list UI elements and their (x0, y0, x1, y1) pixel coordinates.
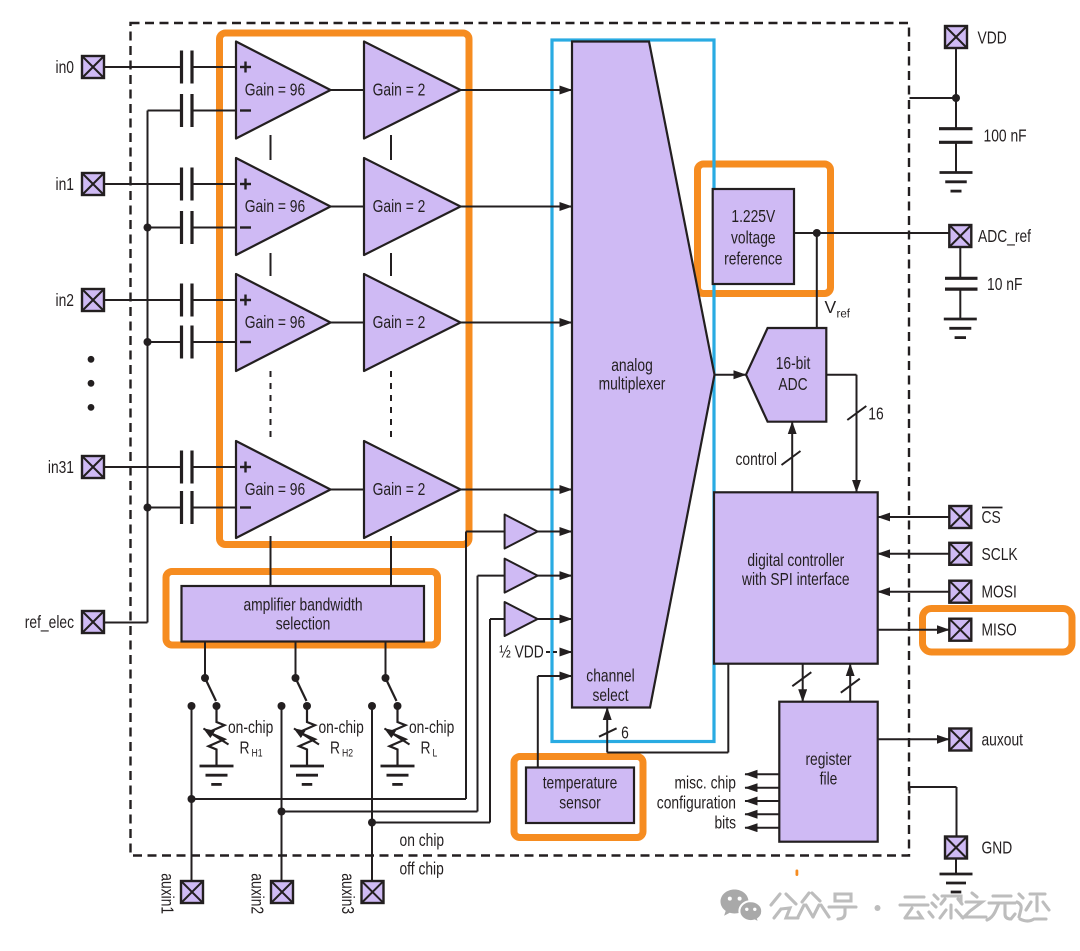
bus slash (841, 679, 860, 693)
minus mark (240, 506, 251, 508)
wire (common electrode line) (147, 111, 149, 623)
wire between stages (331, 206, 365, 208)
ellipsis dots (88, 356, 95, 411)
svg-text:in0: in0 (56, 57, 75, 77)
wire configuration bit (745, 787, 779, 789)
pad CS (949, 506, 971, 528)
wire to multiplexer (461, 322, 573, 324)
wire Vref down to ADC (816, 233, 818, 328)
input pad auxin1 (181, 881, 203, 903)
svg-text:ref: ref (837, 309, 851, 321)
wire in31 + input (104, 466, 236, 468)
wire auxout (878, 738, 950, 740)
svg-text:ADC: ADC (778, 374, 807, 394)
capacitor 10 nF (945, 278, 978, 289)
resistor RH1 (variable, on-chip) (204, 706, 229, 766)
highlight box (orange) around temperature sensor (514, 757, 643, 838)
amplifier bandwidth selection box (182, 586, 425, 642)
svg-text:10 nF: 10 nF (987, 274, 1022, 294)
label on-chip RH2 (319, 717, 364, 760)
node on common electrode line (144, 504, 152, 512)
wire in0 - input (148, 110, 237, 112)
svg-text:in1: in1 (56, 174, 75, 194)
svg-text:on-chip: on-chip (228, 717, 273, 737)
wire from bandwidth selection (204, 642, 206, 679)
svg-text:sensor: sensor (559, 793, 601, 813)
wire ref_elec (104, 622, 148, 624)
svg-text:H1: H1 (252, 748, 263, 760)
wire ADC to digital controller (16-bit bus) (826, 375, 856, 493)
temperature sensor box (526, 768, 634, 824)
svg-text:ADC_ref: ADC_ref (978, 226, 1031, 247)
label register file (805, 749, 851, 789)
op-amp in1 second stage (Gain = 2) (364, 158, 461, 255)
svg-text:auxin1: auxin1 (158, 873, 178, 914)
svg-text:16-bit: 16-bit (776, 353, 811, 373)
svg-text:temperature: temperature (543, 773, 618, 793)
svg-text:with SPI interface: with SPI interface (741, 569, 849, 589)
highlight box (orange) around 1.225V voltage reference (698, 164, 831, 294)
capacitor in2 + input (182, 284, 193, 317)
svg-text:channel: channel (586, 666, 634, 686)
wire register file to controller (849, 664, 851, 702)
label 1.225V voltage reference (724, 206, 782, 269)
wire auxin2 vertical (281, 706, 283, 881)
svg-text:voltage: voltage (731, 228, 776, 248)
svg-text:auxin3: auxin3 (338, 873, 358, 914)
wire between stages (331, 89, 365, 91)
pad auxout (949, 729, 971, 751)
svg-text:½ VDD: ½ VDD (499, 642, 544, 662)
switch SW3 (368, 674, 402, 710)
pad MOSI (949, 581, 971, 603)
input pad in1 (82, 173, 104, 195)
node on common electrode line (144, 224, 152, 232)
svg-text:misc. chip: misc. chip (675, 773, 737, 793)
ground (290, 766, 324, 784)
input pad auxin2 (271, 881, 293, 903)
wire half VDD (dashed) to multiplexer (546, 651, 572, 653)
wire from bandwidth selection (385, 642, 387, 679)
svg-text:in31: in31 (48, 457, 74, 477)
highlight box (orange) around amplifier bandwidth selection (166, 572, 438, 646)
wire MISO (878, 629, 950, 631)
svg-text:on-chip: on-chip (409, 717, 454, 737)
wire (amp column bus) (270, 135, 272, 586)
op-amp in2 second stage (Gain = 2) (364, 274, 461, 371)
svg-text:auxout: auxout (982, 730, 1024, 750)
svg-text:Gain = 2: Gain = 2 (373, 80, 426, 100)
wire auxin3 vertical (371, 706, 373, 881)
svg-text:Gain = 96: Gain = 96 (245, 196, 305, 216)
wire SCLK (878, 553, 950, 555)
wire VDD from chip border (910, 48, 957, 128)
wire to multiplexer (461, 89, 573, 91)
wire in2 + input (104, 299, 236, 301)
ground (940, 874, 973, 892)
svg-text:Gain = 2: Gain = 2 (373, 479, 426, 499)
input pad in31 (82, 456, 104, 478)
wire aux bus 2 (282, 811, 478, 813)
wire MOSI (878, 591, 950, 593)
svg-text:Gain = 96: Gain = 96 (245, 80, 305, 100)
node on common electrode line (144, 338, 152, 346)
svg-text:H2: H2 (342, 748, 353, 760)
svg-text:VDD: VDD (978, 28, 1007, 48)
wire to multiplexer (461, 489, 573, 491)
buffer amp B2 (505, 559, 538, 593)
capacitor in1 + input (182, 168, 193, 201)
wire riser to buffer 2 (478, 576, 505, 812)
bus slash control (782, 451, 801, 465)
capacitor in1 - input (182, 211, 193, 244)
wire aux bus 3 (372, 822, 490, 824)
label amplifier bandwidth selection (243, 595, 362, 634)
wire multiplexer to ADC (715, 374, 747, 376)
node auxin1 bus tap (188, 795, 196, 803)
svg-text:Gain = 2: Gain = 2 (373, 196, 426, 216)
wire GND pad to ground (955, 859, 957, 874)
op-amp 16-bit ADC block (746, 328, 826, 422)
input pad ref_elec (82, 611, 104, 633)
svg-text:MOSI: MOSI (982, 582, 1017, 602)
wire cap to ground (955, 142, 957, 172)
plus mark (240, 179, 251, 190)
plus mark (240, 295, 251, 306)
wire buffer to multiplexer (538, 531, 572, 533)
op-amp in2 first stage (Gain = 96) (236, 274, 331, 371)
label on-chip RH1 (228, 717, 273, 760)
input pad auxin3 (362, 881, 384, 903)
analog multiplexer (572, 42, 715, 708)
svg-text:control: control (736, 449, 778, 469)
wire in2 - input (148, 341, 237, 343)
pad MISO (949, 619, 971, 641)
buffer amp B1 (505, 515, 538, 549)
wire from bandwidth selection (295, 642, 297, 679)
svg-text:SCLK: SCLK (982, 544, 1018, 564)
svg-text:select: select (592, 685, 628, 705)
svg-text:6: 6 (621, 723, 629, 743)
register file box (779, 702, 877, 842)
chip boundary (dashed) (131, 23, 910, 856)
svg-text:Gain = 96: Gain = 96 (245, 479, 305, 499)
op-amp in1 first stage (Gain = 96) (236, 158, 331, 255)
capacitor in2 - input (182, 326, 193, 359)
svg-text:Gain = 2: Gain = 2 (373, 312, 426, 332)
svg-text:1.225V: 1.225V (731, 206, 775, 226)
svg-text:CS: CS (982, 507, 1001, 527)
svg-text:100 nF: 100 nF (984, 126, 1027, 146)
svg-text:amplifier bandwidth: amplifier bandwidth (243, 595, 362, 615)
node Vref (813, 229, 821, 237)
svg-text:digital controller: digital controller (747, 550, 844, 570)
svg-text:off chip: off chip (400, 859, 444, 879)
wire between stages (331, 489, 365, 491)
capacitor in0 - input (182, 94, 193, 127)
wire auxin1 vertical (191, 706, 193, 881)
svg-text:16: 16 (868, 404, 883, 424)
op-amp in0 second stage (Gain = 2) (364, 42, 461, 139)
svg-text:R: R (330, 738, 340, 758)
wire control (controller to ADC) (791, 422, 793, 493)
wire Vref to ADC_ref pad (794, 232, 949, 234)
svg-text:analog: analog (611, 355, 653, 375)
node auxin3 bus tap (368, 819, 376, 827)
svg-text:bits: bits (715, 812, 737, 832)
svg-text:R: R (421, 738, 431, 758)
svg-text:GND: GND (982, 838, 1013, 858)
svg-text:auxin2: auxin2 (248, 873, 268, 914)
label misc. chip configuration bits (657, 773, 736, 833)
node auxin2 bus tap (278, 808, 286, 816)
svg-text:configuration: configuration (657, 792, 736, 812)
1.225V voltage reference box (713, 189, 794, 284)
ground (200, 766, 234, 784)
highlight box (orange) around MISO pad (923, 609, 1073, 653)
op-amp in31 second stage (Gain = 2) (364, 441, 461, 538)
wire in1 + input (104, 183, 236, 185)
capacitor in31 - input (182, 491, 193, 524)
node VDD (952, 94, 960, 102)
plus mark (240, 462, 251, 473)
wire controller to register file (802, 664, 804, 702)
label channel select (586, 666, 634, 705)
watermark WeChat icon (721, 890, 763, 923)
wire configuration bit (745, 773, 779, 775)
wire in31 - input (148, 507, 237, 509)
wire ADC_ref to capacitor (959, 247, 961, 278)
pad SCLK (949, 543, 971, 565)
svg-text:R: R (240, 738, 250, 758)
wire in1 - input (148, 227, 237, 229)
svg-text:multiplexer: multiplexer (599, 374, 666, 394)
svg-text:on chip: on chip (400, 830, 445, 850)
ground (940, 173, 973, 192)
bus slash 6 (599, 728, 617, 736)
op-amp in31 first stage (Gain = 96) (236, 441, 331, 538)
svg-text:on-chip: on-chip (319, 717, 364, 737)
op-amp in0 first stage (Gain = 96) (236, 42, 331, 139)
switch SW1 (188, 674, 221, 710)
capacitor in0 + input (182, 51, 193, 84)
wire in0 + input (104, 66, 236, 68)
buffer amp B3 (505, 602, 538, 636)
svg-text:file: file (820, 769, 838, 789)
switch SW2 (278, 674, 312, 710)
wire configuration bit (745, 800, 779, 802)
wire (amp column bus) (390, 135, 392, 586)
wire configuration bit (745, 813, 779, 815)
wire riser to buffer 1 (466, 532, 505, 800)
pad VDD (945, 26, 967, 48)
capacitor 100 nF (939, 129, 973, 143)
wire CS (878, 516, 950, 518)
wire cap to ground (959, 289, 961, 319)
svg-text:Gain = 96: Gain = 96 (245, 312, 305, 332)
watermark text (771, 893, 1049, 921)
svg-text:register: register (805, 749, 851, 769)
resistor RH2 (variable, on-chip) (294, 706, 319, 766)
svg-text:reference: reference (724, 249, 782, 269)
label temperature sensor (543, 773, 618, 813)
bus slash 16 (847, 406, 866, 420)
svg-text:ref_elec: ref_elec (25, 612, 74, 633)
label Vref (825, 297, 851, 321)
wire riser to buffer 3 (490, 619, 505, 823)
wire GND from chip border (910, 787, 957, 837)
highlight box (orange) around amplifier array (220, 33, 470, 545)
input pad in2 (82, 289, 104, 311)
resistor RL (variable, on-chip) (385, 706, 410, 766)
ground (944, 319, 977, 338)
input pad in0 (82, 56, 104, 78)
wire buffer to multiplexer (538, 618, 572, 620)
label digital controller with SPI interface (741, 550, 849, 589)
capacitor in31 + input (182, 451, 193, 484)
wire channel select (6) (607, 664, 728, 753)
wire temperature sensor to multiplexer (538, 676, 572, 768)
wire configuration bit (745, 827, 779, 829)
label 16-bit ADC (776, 353, 811, 394)
digital controller box (714, 492, 878, 663)
plus mark (240, 62, 251, 73)
label on-chip RL (409, 717, 454, 760)
wire aux bus 1 (192, 798, 467, 800)
label analog multiplexer (599, 355, 666, 394)
svg-text:MISO: MISO (982, 620, 1017, 640)
svg-text:in2: in2 (56, 290, 75, 310)
svg-text:L: L (433, 748, 438, 760)
ground (381, 766, 415, 784)
bus slash (792, 672, 811, 686)
minus mark (240, 226, 251, 228)
wire to multiplexer (461, 206, 573, 208)
minus mark (240, 341, 251, 343)
highlight box (blue) around analog multiplexer (552, 40, 714, 742)
minus mark (240, 109, 251, 111)
wire between stages (331, 322, 365, 324)
orange tick mark (796, 870, 799, 877)
wire buffer to multiplexer (538, 575, 572, 577)
pad ADC_ref (949, 225, 971, 247)
svg-text:selection: selection (276, 614, 331, 634)
pad GND (945, 837, 967, 859)
svg-text:V: V (825, 297, 837, 317)
overline on CS (982, 507, 1003, 509)
